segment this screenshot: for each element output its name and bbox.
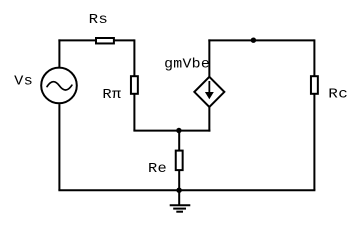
junction node at bottom rail — [176, 188, 181, 193]
resistor Rpi — [131, 76, 138, 94]
resistor Rc — [311, 76, 318, 94]
wire left vertical from top rail down to Vs — [58, 39, 60, 68]
svg-text:Re: Re — [148, 162, 167, 177]
wire vertical from Re down to bottom rail — [178, 170, 180, 190]
svg-text:Rc: Rc — [328, 88, 348, 103]
wire top-right rail — [208, 39, 314, 41]
wire vertical from diamond bottom down to node row — [208, 107, 210, 132]
wire vertical from top-right rail down to Rc — [313, 39, 315, 76]
junction node on top-right rail — [251, 38, 256, 43]
wire vertical from diamond top up to top-right rail — [208, 39, 210, 76]
junction node at Re top — [176, 128, 181, 133]
wire horizontal node row — [133, 130, 210, 132]
ground — [170, 190, 191, 211]
svg-text:Vs: Vs — [14, 74, 33, 89]
svg-text:gmVbe: gmVbe — [164, 58, 210, 73]
wire left vertical from Vs down to bottom rail — [58, 104, 60, 190]
wire bottom rail — [58, 189, 315, 191]
current source gmVbe — [194, 77, 224, 107]
wire vertical from top rail down to Rpi — [133, 39, 135, 76]
wire top rail from Vs corner to Rpi corner — [58, 39, 134, 41]
wire vertical from Rpi down to node row — [133, 94, 135, 131]
resistor Rs — [96, 38, 114, 43]
svg-text:Rπ: Rπ — [102, 88, 121, 103]
svg-text:Rs: Rs — [89, 13, 109, 28]
wire vertical from node down to Re — [178, 131, 180, 151]
resistor Re — [176, 151, 183, 171]
voltage source Vs — [41, 68, 77, 104]
wire vertical from Rc down to bottom rail — [313, 94, 315, 191]
